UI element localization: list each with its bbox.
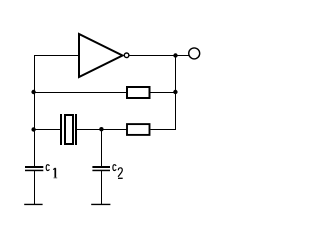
capacitor C2 bottom plate — [92, 170, 110, 172]
wire: crystal to R2 — [77, 129, 127, 131]
node: junction dot R1 / right rail — [173, 90, 177, 94]
node: junction dot left rail / crystal row — [31, 127, 35, 131]
wire: R1 to right rail — [151, 92, 177, 94]
wire: C2 branch vertical — [101, 130, 103, 167]
capacitor C1 top plate — [25, 166, 43, 168]
label C2 : letter C — [113, 165, 116, 171]
node: output terminal circle — [189, 48, 200, 59]
crystal Y1 body — [65, 115, 73, 144]
ground (C2) — [91, 203, 110, 205]
node: junction dot crystal / C2 branch — [99, 127, 103, 131]
wire: C1 to ground — [34, 171, 36, 204]
label C2 : subscript 2 — [118, 168, 122, 177]
resistor R2 — [127, 124, 150, 135]
wire: left vertical rail — [34, 55, 36, 166]
wire: left rail to R1 — [34, 92, 127, 94]
op-amp U1 (inverter triangle) — [79, 34, 123, 77]
wire: top horizontal, left rail corner to inverter input — [34, 55, 79, 57]
inverter output bubble — [124, 53, 129, 58]
label C1 : letter C — [46, 165, 49, 171]
node: junction dot top of right rail — [173, 53, 177, 57]
wire: right vertical rail — [175, 56, 177, 131]
crystal Y1 left plate — [60, 114, 62, 145]
node: junction dot left rail / R1 row — [31, 90, 35, 94]
capacitor C2 top plate — [92, 166, 110, 168]
wire: C2 to ground — [101, 171, 103, 204]
ground (C1) — [24, 203, 42, 205]
wire: R2 to right rail corner — [151, 129, 177, 131]
resistor R1 — [127, 87, 150, 98]
capacitor C1 bottom plate — [25, 170, 43, 172]
wire: inverter output to terminal — [130, 55, 189, 57]
wire: left rail to crystal — [34, 129, 60, 131]
crystal Y1 right plate — [75, 114, 77, 145]
label C1 : subscript 1 — [54, 168, 56, 177]
